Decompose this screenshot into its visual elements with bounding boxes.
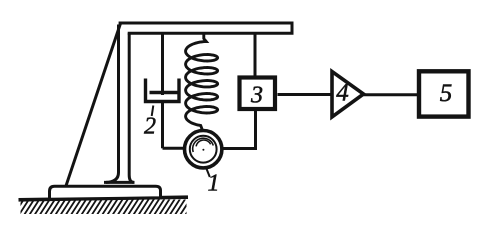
- svg-text:5: 5: [440, 80, 453, 107]
- stand column right line: [129, 33, 133, 182]
- sensor inner arc b: [196, 140, 211, 146]
- wire bar to box 3: [254, 33, 257, 77]
- wire box3 to amp: [278, 93, 332, 96]
- box 3: [240, 78, 276, 110]
- svg-text:3: 3: [250, 83, 263, 109]
- pointer to label 2: [152, 106, 154, 117]
- amplifier triangle 4: [332, 72, 364, 118]
- wire damper to sensor: [163, 147, 186, 150]
- damper cup: [146, 79, 180, 102]
- damper rod: [161, 33, 164, 95]
- spring: [186, 33, 218, 131]
- diagonal brace: [66, 24, 120, 186]
- sensor circle 1 outer: [185, 131, 222, 168]
- stand column foot line: [104, 181, 135, 184]
- base plate: [50, 186, 161, 199]
- sensor center dot: [202, 149, 204, 151]
- svg-text:2: 2: [144, 114, 156, 140]
- wire amp to box5: [364, 93, 418, 96]
- svg-text:1: 1: [208, 171, 220, 197]
- top bar: [119, 23, 292, 33]
- ground line: [19, 197, 189, 200]
- damper piston: [150, 91, 178, 94]
- damper lower link: [161, 103, 164, 148]
- sensor inner arc a: [193, 138, 214, 152]
- wire sensor to box 3 riser: [221, 111, 256, 149]
- svg-text:4: 4: [336, 79, 349, 106]
- sensor circle 1 inner: [190, 136, 217, 163]
- box 5: [419, 71, 469, 116]
- pointer to label 1: [206, 168, 210, 177]
- stand column left line: [106, 25, 119, 183]
- ground hatching: [14, 199, 196, 215]
